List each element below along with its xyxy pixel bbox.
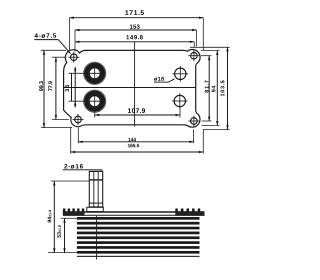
extension lines right (190, 47, 230, 129)
extension lines top (69, 18, 203, 52)
dimension 171.5 (69, 10, 203, 19)
dimension 53±1.8 (57, 218, 66, 252)
side extension lines (48, 181, 89, 253)
corner hole BR (188, 116, 199, 127)
plate vertical center mark line (134, 42, 136, 127)
fin stack plates (77, 217, 200, 257)
hole H2 (lower Φ18 hole) (172, 93, 188, 109)
hole H1 (upper Φ18 hole) (173, 66, 189, 82)
dimension 77.9 (48, 57, 57, 119)
port P1 (upper oil port boss) (84, 62, 106, 84)
dimension 153 (75, 25, 197, 32)
top plate tabs right (175, 209, 200, 212)
inlet pipe fitting (89, 171, 103, 211)
top plate flange (63, 211, 205, 215)
port P2 (lower oil port boss) (84, 90, 106, 112)
plate horizontal centerline (64, 87, 196, 89)
cooler cover plate outline (64, 49, 200, 127)
label Φ18 with leader (154, 77, 175, 82)
dimension 144 (78, 138, 193, 143)
corner hole TL (68, 52, 79, 63)
label 2-Φ16 with leader underline (63, 164, 103, 170)
dimension 94 (212, 51, 219, 126)
stack center line (96, 216, 98, 260)
top plate tabs left (63, 209, 84, 212)
extension lines bottom (71, 127, 204, 154)
extension lines left (41, 50, 86, 127)
corner hole TR (188, 50, 199, 61)
corner hole BL (73, 114, 84, 125)
label 4-Φ7.5 with leader (34, 33, 70, 53)
dimension 35 (65, 67, 76, 108)
dimension 99.3 (39, 50, 45, 127)
dimension 107.9 (95, 108, 180, 116)
dimension 103.5 (221, 47, 229, 130)
dimension 165.5 (71, 144, 204, 153)
dimension 94±1.8 (48, 181, 56, 253)
extension lines for 107.9 (95, 107, 180, 118)
pipe base nut (87, 207, 104, 211)
dimension 81.7 (205, 56, 211, 121)
dimension 149.8 (75, 35, 194, 43)
